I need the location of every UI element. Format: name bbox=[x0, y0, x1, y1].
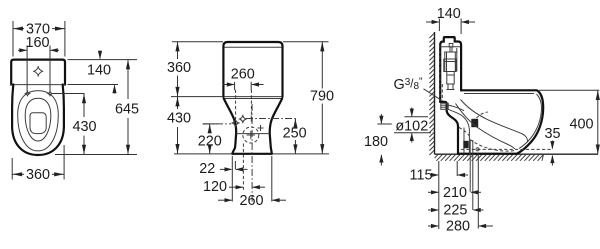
fixing hole rosette B bbox=[239, 115, 247, 124]
floor line bbox=[435, 153, 599, 155]
extension line cistern bottom (140 bottom ref) bbox=[68, 84, 119, 86]
dimension 140 (side) extension lines bbox=[438, 19, 440, 32]
G3/8 leader line bbox=[424, 89, 442, 101]
dimension 160 bbox=[18, 35, 59, 53]
svg-text:790: 790 bbox=[310, 89, 334, 105]
inner bowl funnel curve B bbox=[456, 104, 515, 150]
dimension 790 bbox=[310, 42, 334, 154]
shoulder extension left (360 bottom ref) bbox=[171, 96, 223, 98]
bowl back / pedestal (side outline) bbox=[440, 102, 458, 154]
hidden drain line below bbox=[242, 144, 244, 191]
svg-text:430: 430 bbox=[167, 110, 191, 126]
cistern (side outline) with button bbox=[440, 37, 461, 102]
dimension 400 bbox=[569, 90, 599, 154]
shoulder line upper bbox=[224, 96, 282, 98]
base corner extension left bbox=[231, 156, 233, 202]
o102 reference line lower bbox=[394, 132, 431, 134]
svg-text:360: 360 bbox=[167, 60, 191, 76]
bowl right side (front) bbox=[270, 99, 282, 154]
inner channel curve bbox=[447, 105, 464, 111]
extension line from hinge holes (430 top ref) bbox=[52, 93, 84, 95]
flush mechanism inside cistern bbox=[444, 44, 457, 90]
hidden axis dash-dot right (250 ref) bbox=[246, 118, 298, 120]
svg-text:645: 645 bbox=[115, 102, 139, 118]
base back extension below floor bbox=[456, 161, 458, 176]
top extension line left (360 top ref) bbox=[172, 41, 223, 43]
duct wall line bbox=[463, 128, 465, 154]
cistern lid seam (side) bbox=[441, 46, 461, 48]
fixing dot extension bbox=[477, 153, 479, 229]
dimension 645 bbox=[115, 60, 139, 155]
seat opening inner (plan) bbox=[25, 98, 51, 141]
wall extension below floor bbox=[438, 161, 440, 229]
push-button rosette on cistern bbox=[33, 66, 43, 77]
svg-text:260: 260 bbox=[239, 193, 263, 209]
cistern tank (plan outline) bbox=[11, 60, 65, 85]
cistern tank (front outline) bbox=[223, 42, 282, 97]
dimension 360 extension lines bbox=[11, 158, 13, 180]
dimension 180 bbox=[364, 114, 388, 166]
dimension 430 (left view) bbox=[72, 94, 96, 155]
extension line bowl front (645/430 bottom ref) bbox=[55, 154, 137, 156]
fixing hole black (lower) bbox=[463, 141, 468, 148]
rim top extension (400 top ref) bbox=[539, 89, 599, 91]
dimension 360 bbox=[12, 167, 64, 183]
floor line right of pedestal bbox=[273, 153, 330, 155]
fixing dot bbox=[476, 148, 479, 151]
dimension 260 (top) bbox=[223, 67, 264, 87]
hidden trap bottom curve bbox=[470, 140, 515, 152]
tick for 22 bbox=[234, 161, 236, 169]
top extension line right (790 top ref) bbox=[283, 41, 329, 43]
pedestal front edge line bbox=[236, 133, 269, 135]
dimension 120 bbox=[203, 179, 265, 195]
wall line bbox=[434, 32, 436, 154]
dimension 260 (bottom) bbox=[218, 193, 286, 209]
svg-text:360: 360 bbox=[26, 167, 50, 183]
hidden arc near flush outlet bbox=[477, 112, 488, 118]
dimension 115 bbox=[410, 168, 468, 184]
seat ring outer (plan) bbox=[18, 91, 59, 151]
svg-text:35: 35 bbox=[544, 126, 560, 142]
hidden flush pipe behind cistern bbox=[439, 45, 441, 101]
dimension 140 (left view) bbox=[87, 51, 117, 94]
dimension 35 bbox=[544, 126, 560, 166]
svg-text:225: 225 bbox=[443, 203, 467, 219]
dimension 250 bbox=[283, 119, 307, 154]
hidden line from right tick bbox=[250, 90, 252, 115]
dimension 280 bbox=[428, 219, 493, 235]
flush channel curve bbox=[447, 109, 470, 154]
svg-text:120: 120 bbox=[203, 179, 227, 195]
centreline (front view) bbox=[251, 104, 253, 202]
dimension 220 bbox=[198, 124, 222, 154]
hidden drain circle bbox=[243, 127, 259, 143]
svg-text:22: 22 bbox=[199, 161, 215, 177]
svg-text:260: 260 bbox=[231, 67, 255, 83]
drain stub hidden right bbox=[472, 140, 474, 210]
svg-text:250: 250 bbox=[283, 126, 307, 142]
svg-text:160: 160 bbox=[25, 35, 49, 51]
svg-text:ø102: ø102 bbox=[395, 118, 428, 134]
small cross mark bbox=[258, 125, 264, 131]
fixing hole black (upper) bbox=[471, 119, 478, 127]
pedestal base bottom bbox=[232, 153, 271, 155]
extension line cistern top (140/645 top ref) bbox=[68, 59, 138, 61]
bowl (side outline) bbox=[461, 90, 543, 153]
inner front wall bbox=[519, 94, 542, 149]
drain centre cross bbox=[247, 131, 255, 139]
svg-text:210: 210 bbox=[443, 185, 467, 201]
dimension o102 bbox=[395, 108, 428, 143]
cistern lid seam bbox=[225, 46, 282, 48]
inner bowl funnel curve A bbox=[461, 100, 528, 143]
bowl left side (front) bbox=[224, 99, 236, 154]
floor line left of pedestal bbox=[174, 153, 232, 155]
water surface shape bbox=[30, 113, 46, 134]
dimension 220 top tick bbox=[203, 123, 218, 125]
hidden line from left tick bbox=[235, 90, 237, 119]
svg-text:180: 180 bbox=[364, 134, 388, 150]
hidden pipe lower dashes bbox=[441, 84, 443, 101]
base corner extension right bbox=[271, 156, 273, 202]
svg-text:400: 400 bbox=[569, 117, 593, 133]
dimension 160 ticks / hole extension lines bbox=[26, 46, 28, 92]
svg-text:140: 140 bbox=[87, 63, 111, 79]
dimension 210 bbox=[428, 185, 481, 201]
floor hatching bbox=[435, 154, 544, 161]
hidden water line bbox=[461, 148, 551, 150]
base bottom (side) bbox=[458, 153, 517, 155]
cross tick on right axis bbox=[250, 115, 252, 121]
o102 reference line upper bbox=[405, 116, 429, 118]
bowl outer outline (plan) bbox=[12, 85, 64, 156]
svg-text:430: 430 bbox=[72, 119, 96, 135]
dimension 22 bbox=[199, 161, 247, 177]
seat hinge hole left bbox=[25, 91, 29, 95]
inlet fitting bbox=[441, 103, 448, 109]
svg-text:140: 140 bbox=[437, 6, 461, 22]
hidden trap curve bbox=[459, 128, 471, 139]
svg-text:115: 115 bbox=[410, 168, 433, 184]
seat hinge hole right bbox=[48, 91, 52, 95]
hidden axis dash-dot left (220 ref) bbox=[203, 123, 231, 125]
180 reference line bbox=[377, 123, 392, 125]
wall hatching bbox=[429, 33, 434, 155]
drain stub hidden left bbox=[469, 140, 471, 192]
dimension 140 (side) bbox=[426, 6, 475, 24]
seat under line bbox=[464, 93, 534, 95]
dimension 370 bbox=[13, 21, 65, 37]
svg-text:220: 220 bbox=[198, 133, 222, 149]
fixing hole rosette A bbox=[231, 119, 239, 128]
dimension 370 extension lines bbox=[12, 21, 14, 57]
svg-text:280: 280 bbox=[446, 219, 470, 235]
shoulder line lower bbox=[224, 98, 282, 100]
dimension 360 (front) bbox=[167, 42, 191, 97]
dimension 430 (front) bbox=[167, 97, 191, 154]
dimension 260 (top) ticks bbox=[234, 82, 236, 90]
dimension 225 bbox=[428, 203, 484, 219]
